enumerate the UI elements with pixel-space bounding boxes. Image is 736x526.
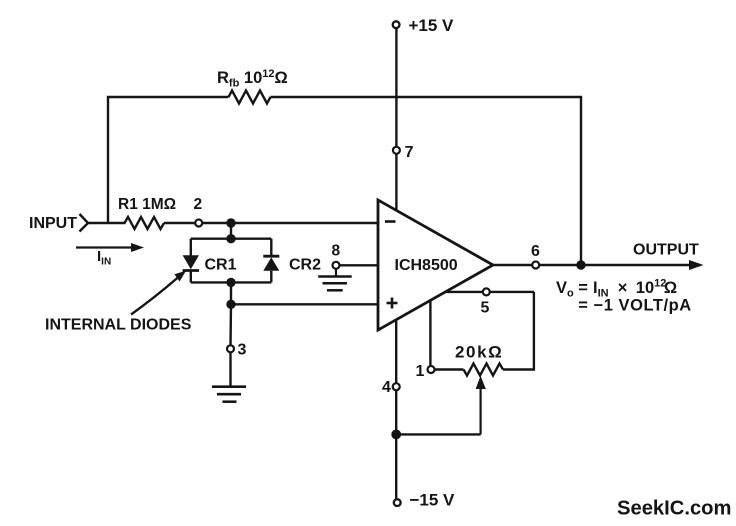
pot wiper arrow xyxy=(476,376,486,435)
svg-text:CR2: CR2 xyxy=(289,257,321,274)
svg-text:3: 3 xyxy=(238,342,247,359)
svg-text:+15 V: +15 V xyxy=(409,16,455,35)
svg-text:1: 1 xyxy=(416,363,425,380)
wire: stub from input wire to diode box top xyxy=(230,223,232,239)
svg-text:ICH8500: ICH8500 xyxy=(395,257,458,274)
svg-text:R1 1MΩ: R1 1MΩ xyxy=(118,196,176,213)
wire: vertical down to pin 3 xyxy=(229,304,232,345)
wire: diode box bottom edge xyxy=(191,281,271,283)
resistor Rfb xyxy=(229,91,271,104)
pin 8 guard wire xyxy=(340,264,379,266)
op-amp non-inverting input marker xyxy=(387,298,398,309)
wire: wiper to negative supply line xyxy=(396,433,480,435)
pin 5 terminal circle xyxy=(483,288,490,295)
svg-text:CR1: CR1 xyxy=(205,257,237,274)
svg-text:6: 6 xyxy=(531,243,540,260)
current arrow I_IN xyxy=(76,243,144,252)
svg-text:SeekIC.com: SeekIC.com xyxy=(617,498,731,520)
pin 2 terminal circle xyxy=(195,220,202,227)
pin 1 terminal circle xyxy=(428,366,435,373)
svg-text:4: 4 xyxy=(382,379,391,396)
wire: top feedback horizontal (left of Rfb) xyxy=(108,97,229,223)
wire: positive supply line to pin 7 and op-amp top xyxy=(395,28,397,210)
svg-text:20kΩ: 20kΩ xyxy=(455,343,503,362)
svg-text:= −1 VOLT/pA: = −1 VOLT/pA xyxy=(578,296,692,314)
svg-text:OUTPUT: OUTPUT xyxy=(633,241,699,258)
wire: output from op-amp apex xyxy=(493,264,691,266)
wire: diode box right upper lead xyxy=(270,239,272,256)
wire: non-inverting input wire to op-amp xyxy=(231,303,378,305)
wire: input segment to R1 xyxy=(88,222,126,224)
resistor R1 xyxy=(125,217,165,229)
op-amp inverting input marker xyxy=(385,220,396,223)
wire: pin 5 stub from op-amp lower edge xyxy=(445,291,534,293)
+15V supply terminal xyxy=(393,21,400,28)
wire: input segment from R1 to inverting input of op-amp xyxy=(164,222,378,224)
wire: negative supply line from op-amp bottom edge to -15V xyxy=(395,320,397,500)
-15V supply terminal xyxy=(394,499,401,506)
svg-text:INTERNAL DIODES: INTERNAL DIODES xyxy=(45,317,192,334)
svg-text:IIN: IIN xyxy=(97,248,111,268)
wire: top feedback horizontal (right of Rfb) and right vertical down to output xyxy=(271,97,582,265)
pin 3 terminal circle xyxy=(227,345,234,352)
diode CR2 (cathode up) xyxy=(263,256,279,282)
junction dot on input wire xyxy=(226,218,235,227)
pin 8 terminal circle xyxy=(333,262,340,269)
junction dot on diode box top xyxy=(226,234,235,243)
wire: stub from diode box bottom to non-inverting wire xyxy=(230,282,232,304)
potentiometer 20k resistor body xyxy=(464,364,504,376)
pin 6 terminal circle xyxy=(532,262,539,269)
svg-text:INPUT: INPUT xyxy=(29,215,77,232)
wire: pin 3 ground stem xyxy=(229,352,231,385)
wire: pin 1 vertical up to op-amp lower edge xyxy=(429,300,431,366)
wire: balance loop right side down to pot xyxy=(503,292,534,370)
junction dot: feedback meets output xyxy=(576,260,585,269)
svg-text:8: 8 xyxy=(332,243,341,260)
wire: diode box left upper lead xyxy=(190,239,192,256)
ground symbol (pin 8) xyxy=(318,269,352,291)
diode CR1 (cathode down) xyxy=(183,255,199,282)
pin 7 terminal circle xyxy=(393,147,400,154)
svg-text:5: 5 xyxy=(481,300,490,317)
svg-text:7: 7 xyxy=(405,144,414,161)
annotation arrow to internal diodes xyxy=(131,271,186,315)
junction dot on diode box bottom xyxy=(226,278,235,287)
wire: diode box top edge xyxy=(191,237,271,239)
svg-text:2: 2 xyxy=(194,196,203,213)
input terminal chevron xyxy=(80,214,89,232)
junction dot: wiper meets negative supply xyxy=(391,430,401,440)
junction dot on non-inverting wire xyxy=(226,300,235,309)
op-amp U1 ICH8500 triangle xyxy=(378,200,493,330)
svg-text:Rfb 1012Ω: Rfb 1012Ω xyxy=(217,68,288,90)
pin 4 terminal circle xyxy=(393,383,400,390)
wire: pot left lead to pin 1 xyxy=(435,368,464,370)
ground symbol (pin 3) xyxy=(212,387,246,402)
svg-text:−15 V: −15 V xyxy=(410,491,456,510)
output arrowhead xyxy=(689,260,704,270)
